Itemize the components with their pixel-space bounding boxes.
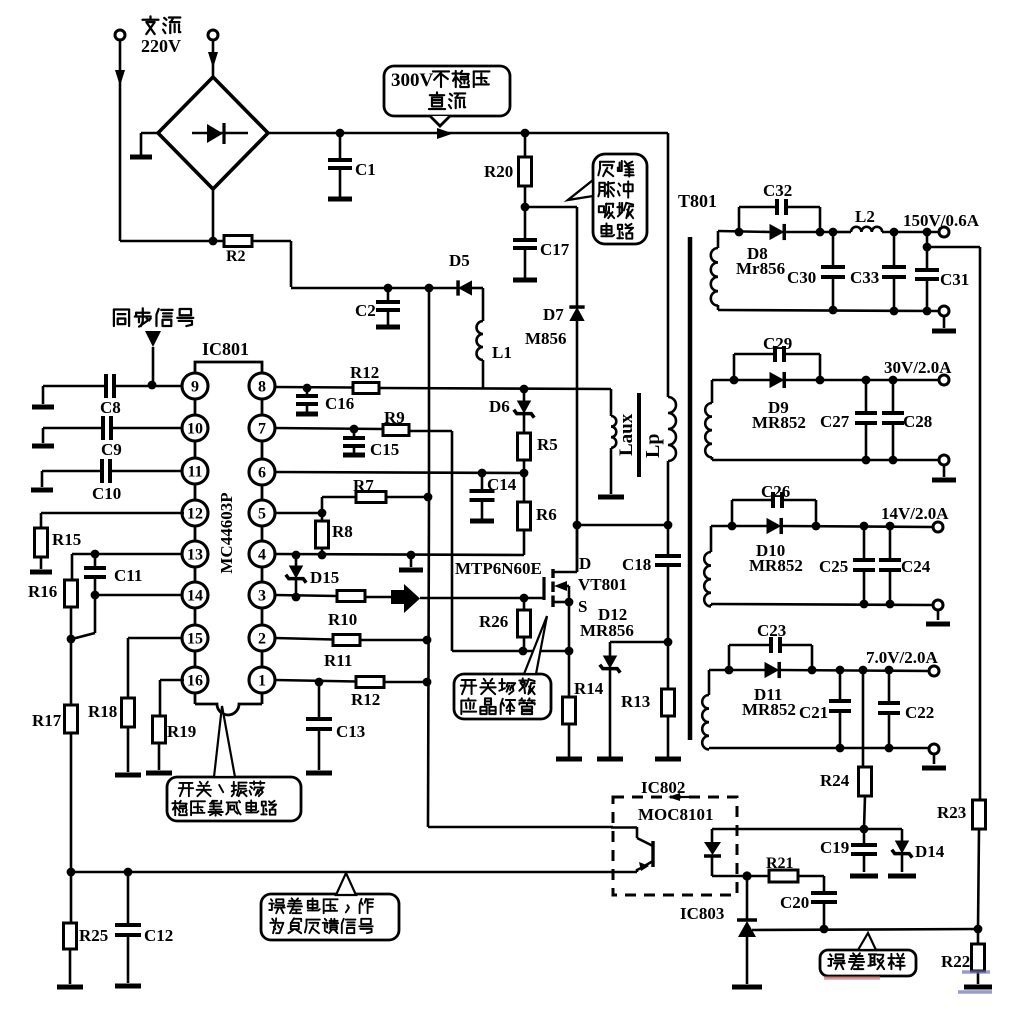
drive arrow symbol xyxy=(391,584,420,613)
wire R16 top xyxy=(71,554,74,580)
wire D12 row xyxy=(610,641,668,644)
svg-text:R18: R18 xyxy=(88,702,117,721)
winding Laux xyxy=(598,416,624,497)
wire D9 out xyxy=(785,379,939,382)
svg-text:7: 7 xyxy=(258,421,266,438)
wire ref row xyxy=(752,929,978,930)
svg-text:C1: C1 xyxy=(355,160,376,179)
node D11 cathode xyxy=(808,666,817,675)
svg-text:C31: C31 xyxy=(940,270,969,289)
svg-text:R5: R5 xyxy=(537,435,558,454)
capacitor C21 xyxy=(799,670,851,748)
resistor R12a xyxy=(350,363,379,394)
capacitor C16 xyxy=(296,388,354,414)
wire pin4 row xyxy=(275,554,524,555)
svg-text:C11: C11 xyxy=(114,566,142,585)
svg-text:14: 14 xyxy=(187,588,203,605)
resistor R12b xyxy=(351,677,384,710)
wire feedback long xyxy=(71,871,637,874)
svg-text:D5: D5 xyxy=(449,251,470,270)
svg-text:R21: R21 xyxy=(766,855,794,872)
callout error sampling xyxy=(820,933,916,976)
svg-text:C30: C30 xyxy=(787,268,816,287)
node R7-x427 xyxy=(424,493,433,502)
wire R24 line xyxy=(862,670,865,767)
capacitor C19 xyxy=(820,829,878,876)
svg-text:IC801: IC801 xyxy=(202,339,249,359)
svg-text:Lp: Lp xyxy=(642,434,664,458)
node D6 top xyxy=(520,385,529,394)
wire D5 to L1 xyxy=(472,288,483,321)
node D9 anode xyxy=(730,376,739,385)
svg-text:R7: R7 xyxy=(353,476,374,495)
scan artifact red xyxy=(824,976,880,980)
node C16 top xyxy=(303,384,312,393)
capacitor C31 xyxy=(915,270,969,311)
ground stub on pin4 row xyxy=(399,555,423,570)
AC input terminal 1 xyxy=(115,30,125,241)
svg-text:30V/2.0A: 30V/2.0A xyxy=(884,358,952,377)
capacitor C8 xyxy=(43,374,121,417)
node R24-C19-D14 xyxy=(860,825,869,834)
svg-text:4: 4 xyxy=(258,547,266,564)
resistor R8 xyxy=(316,513,353,548)
svg-text:C19: C19 xyxy=(820,838,849,857)
svg-text:C2: C2 xyxy=(355,301,376,320)
svg-text:MR852: MR852 xyxy=(742,700,796,719)
terminal sec2 gnd xyxy=(932,455,956,480)
op-amp IC801 MC44603P body xyxy=(195,339,262,715)
capacitor C12 xyxy=(115,872,173,986)
wire pin7 row xyxy=(275,428,383,429)
svg-text:S: S xyxy=(578,597,587,616)
svg-text:L2: L2 xyxy=(855,207,875,226)
resistor R9 xyxy=(383,408,409,436)
wire R18 top xyxy=(127,638,130,698)
node D10 anode xyxy=(728,522,737,531)
wire snubber top xyxy=(525,207,577,308)
node C30 bottom xyxy=(829,306,838,315)
svg-text:C24: C24 xyxy=(901,557,931,576)
svg-text:R9: R9 xyxy=(384,408,405,427)
diode D14 zener xyxy=(888,829,945,876)
sync arrow xyxy=(145,331,161,385)
wire C8 gnd xyxy=(32,386,54,407)
wire 300V rail xyxy=(268,132,668,135)
resistor R18 xyxy=(88,698,135,727)
svg-text:16: 16 xyxy=(187,673,203,690)
capacitor C29 xyxy=(734,334,820,380)
svg-text:300V: 300V xyxy=(391,70,434,91)
wire x427 vertical xyxy=(428,288,613,827)
svg-text:C20: C20 xyxy=(780,893,809,912)
wire D10 out xyxy=(782,526,932,527)
resistor R19 xyxy=(153,716,197,743)
svg-text:R26: R26 xyxy=(479,612,508,631)
AC input terminal 2 xyxy=(208,30,218,77)
node C31 branch xyxy=(923,228,932,252)
svg-text:D6: D6 xyxy=(489,397,510,416)
capacitor C9 xyxy=(43,416,122,459)
svg-text:MR852: MR852 xyxy=(752,413,806,432)
label sync signal xyxy=(114,308,193,326)
node R20 top xyxy=(521,129,530,138)
svg-text:C15: C15 xyxy=(370,440,399,459)
resistor R5 xyxy=(518,433,558,460)
resistor R16 xyxy=(28,580,78,607)
node Lp bottom xyxy=(664,521,673,530)
svg-text:C25: C25 xyxy=(819,557,848,576)
node C12 top xyxy=(124,868,133,877)
svg-text:R16: R16 xyxy=(28,582,57,601)
wire R14 gnd xyxy=(556,724,582,759)
svg-text:R15: R15 xyxy=(52,530,81,549)
capacitor C33 xyxy=(850,232,906,311)
wire pin5 row xyxy=(275,512,322,515)
node TL431 cathode xyxy=(742,871,751,880)
node D11 anode xyxy=(725,666,734,675)
capacitor C17 xyxy=(513,240,570,280)
wire R11 right xyxy=(360,639,427,642)
resistor R10 xyxy=(328,591,365,630)
resistor R13 xyxy=(621,642,681,759)
callout 300V unregulated DC xyxy=(384,66,510,126)
svg-text:MTP6N60E: MTP6N60E xyxy=(455,559,542,578)
node C17 top xyxy=(521,203,530,212)
wire primary bottom xyxy=(667,461,670,525)
svg-text:T801: T801 xyxy=(678,191,717,211)
svg-text:IC803: IC803 xyxy=(680,904,724,923)
svg-text:9: 9 xyxy=(191,379,199,396)
node D8 cathode xyxy=(816,228,825,237)
capacitor C23 xyxy=(729,621,812,670)
wire source down xyxy=(568,602,571,697)
wire AC bottom xyxy=(120,240,224,243)
wire pin9 xyxy=(114,385,183,388)
node R5 bottom xyxy=(520,469,529,478)
wire drain row xyxy=(577,524,668,527)
svg-text:Laux: Laux xyxy=(616,413,637,456)
diode D11 xyxy=(742,662,796,719)
wire sec1 top xyxy=(718,231,770,232)
svg-text:15: 15 xyxy=(187,631,203,648)
node bridge bottom xyxy=(209,237,218,246)
svg-text:7.0V/2.0A: 7.0V/2.0A xyxy=(866,648,939,667)
svg-text:D7: D7 xyxy=(543,305,564,324)
wire aux top xyxy=(610,389,613,416)
node R8 top xyxy=(318,509,327,518)
svg-text:R17: R17 xyxy=(32,711,62,730)
svg-text:R6: R6 xyxy=(536,505,557,524)
resistor R21 xyxy=(747,855,798,882)
ground at bridge left xyxy=(130,133,158,157)
wire pin6 row xyxy=(275,472,524,473)
svg-text:C14: C14 xyxy=(487,475,517,494)
resistor R25 xyxy=(64,923,109,949)
terminal 7V xyxy=(866,648,939,676)
diode D7 xyxy=(525,305,585,525)
node x427 top xyxy=(425,284,434,293)
wire sec4 bottom xyxy=(709,747,929,750)
node R26 bottom xyxy=(519,647,528,656)
node R8-pin4 xyxy=(318,551,327,560)
diode D5 xyxy=(449,251,472,296)
terminal sec3 gnd xyxy=(926,600,950,624)
node D9 cathode xyxy=(816,376,825,385)
node C13 top xyxy=(315,678,324,687)
capacitor C32 xyxy=(739,181,820,232)
node C1 top xyxy=(336,129,345,138)
node drain-Lp row left xyxy=(573,521,582,530)
wire R19 gnd xyxy=(146,743,172,773)
wire R7 right xyxy=(386,496,428,499)
svg-text:C29: C29 xyxy=(763,334,792,353)
callout spike absorb circuit xyxy=(568,154,647,244)
svg-text:M856: M856 xyxy=(525,329,567,348)
wire R16 bottom xyxy=(70,607,73,640)
svg-text:L1: L1 xyxy=(492,343,512,362)
wire R6 bottom xyxy=(523,530,526,555)
callout switching FET xyxy=(454,616,551,719)
node gnd stub pin4 xyxy=(407,551,416,560)
wire LED anode xyxy=(712,828,902,831)
svg-text:R24: R24 xyxy=(820,771,850,790)
diode D15 zener xyxy=(286,555,340,597)
node C28 bottom xyxy=(889,456,898,465)
diode D12 zener xyxy=(580,605,634,759)
svg-text:D: D xyxy=(579,554,591,573)
svg-text:13: 13 xyxy=(187,547,203,564)
node source xyxy=(565,598,574,607)
svg-text:C18: C18 xyxy=(622,555,651,574)
node sample junction xyxy=(974,925,983,934)
svg-text:D15: D15 xyxy=(310,568,339,587)
wire primary top xyxy=(667,133,670,397)
arrow on 300V rail xyxy=(437,128,453,139)
resistor R24 xyxy=(820,767,872,796)
svg-text:R20: R20 xyxy=(484,162,513,181)
wire drain down xyxy=(576,525,579,572)
wire source row xyxy=(452,650,569,653)
node C18 bottom xyxy=(664,638,673,647)
capacitor C11 xyxy=(84,554,142,595)
capacitor C26 xyxy=(732,482,816,526)
svg-text:2: 2 xyxy=(258,631,266,648)
wire pin1 row xyxy=(275,680,356,682)
svg-text:C16: C16 xyxy=(325,394,354,413)
svg-text:C21: C21 xyxy=(799,703,828,722)
wire sec3 top xyxy=(711,525,767,528)
LED of IC802 xyxy=(704,829,721,876)
svg-text:C13: C13 xyxy=(336,722,365,741)
resistor R14 xyxy=(563,679,604,724)
wire pin11 xyxy=(110,470,183,473)
svg-text:11: 11 xyxy=(187,464,202,481)
shunt regulator IC803 xyxy=(680,876,762,987)
wire sec1 bottom xyxy=(718,310,939,311)
node C25 top xyxy=(860,522,869,531)
wire pin16 xyxy=(160,680,184,716)
wire R2 to C2 row xyxy=(252,241,388,288)
wire C2/D5 row xyxy=(388,287,458,290)
node C25 bottom xyxy=(860,600,869,609)
node C24 bottom xyxy=(886,600,895,609)
resistor R11 xyxy=(324,635,360,671)
node C15 top xyxy=(350,425,359,434)
wire bridge bottom xyxy=(212,189,215,241)
resistor R7 xyxy=(353,476,386,503)
diode D10 xyxy=(749,518,803,575)
node D8 anode xyxy=(735,228,744,237)
svg-text:C32: C32 xyxy=(763,181,792,200)
wire R5-R6 xyxy=(523,460,526,502)
wire sec3 bottom xyxy=(711,604,932,605)
node D10 cathode xyxy=(812,522,821,531)
svg-text:1: 1 xyxy=(258,673,266,690)
terminal 14V xyxy=(881,504,949,532)
wire pin12 xyxy=(41,513,184,528)
svg-text:C33: C33 xyxy=(850,268,879,287)
wire R8 bottom xyxy=(321,548,324,555)
resistor R6 xyxy=(518,502,557,530)
node R12b-x427 xyxy=(423,678,432,687)
resistor R20 xyxy=(484,133,532,186)
wire R25 gnd xyxy=(57,949,83,987)
svg-text:MR852: MR852 xyxy=(749,556,803,575)
wire sec2 top xyxy=(712,379,770,382)
wire C11 to R17 node xyxy=(72,595,95,639)
capacitor C24 xyxy=(879,526,931,604)
resistor R23 xyxy=(937,800,986,829)
scan artifact blue xyxy=(958,972,992,992)
transformer T801 core xyxy=(678,191,717,740)
label AC 220V xyxy=(141,16,181,56)
svg-text:C10: C10 xyxy=(92,484,121,503)
node C2 top xyxy=(384,284,393,293)
svg-text:MOC8101: MOC8101 xyxy=(638,805,714,824)
node C28 top xyxy=(889,376,898,385)
wire pin10 xyxy=(111,427,183,430)
node source junction xyxy=(565,647,574,656)
node D15 top xyxy=(292,551,301,560)
terminal 30V xyxy=(884,358,952,385)
IC801 pins xyxy=(182,373,275,693)
winding Lp primary xyxy=(668,397,676,461)
node C33 top xyxy=(890,228,899,237)
winding secondary 4 xyxy=(702,670,709,749)
wire to R17 xyxy=(70,639,73,705)
node R17 top xyxy=(67,635,76,644)
capacitor C13 xyxy=(306,682,365,773)
node C22 bottom xyxy=(885,744,894,753)
wire sec1 to term xyxy=(882,231,939,234)
capacitor C30 xyxy=(787,232,845,310)
wire pin8 row xyxy=(275,387,611,389)
node C11 bottom xyxy=(91,591,100,600)
node R26 top xyxy=(520,594,529,603)
svg-text:10: 10 xyxy=(187,421,203,438)
svg-text:R12: R12 xyxy=(351,690,380,709)
resistor R22 xyxy=(941,929,992,987)
svg-text:R22: R22 xyxy=(941,952,970,971)
svg-text:8: 8 xyxy=(258,379,266,396)
svg-text:C12: C12 xyxy=(144,926,173,945)
node C27 top xyxy=(862,376,871,385)
wire R20 to C17 xyxy=(524,186,527,240)
capacitor C15 xyxy=(343,429,399,459)
svg-text:14V/2.0A: 14V/2.0A xyxy=(881,504,949,523)
resistor R26 xyxy=(479,598,531,651)
wire R7 left xyxy=(322,497,356,513)
terminal sec4 gnd xyxy=(922,744,946,768)
winding secondary 1 xyxy=(711,231,718,310)
resistor R15 xyxy=(35,528,82,557)
svg-text:12: 12 xyxy=(187,506,203,523)
svg-text:R12: R12 xyxy=(350,363,379,382)
svg-text:C26: C26 xyxy=(761,482,790,501)
wire R21 to C20 xyxy=(798,876,824,893)
capacitor C20 xyxy=(780,893,837,929)
node C24 top xyxy=(886,522,895,531)
node C14 top xyxy=(478,469,487,478)
capacitor C10 xyxy=(42,459,121,503)
wire sec4 top xyxy=(709,669,765,672)
svg-text:220V: 220V xyxy=(141,36,181,56)
diode D9 xyxy=(752,372,806,432)
svg-text:Mr856: Mr856 xyxy=(736,259,785,278)
node sync junction xyxy=(148,381,157,390)
wire L1 down xyxy=(482,360,485,388)
svg-text:R2: R2 xyxy=(226,248,246,265)
bridge rectifier xyxy=(158,77,268,189)
terminal 150V xyxy=(903,211,980,237)
capacitor C27 xyxy=(820,380,877,460)
diode D6 zener xyxy=(489,389,534,433)
wire R25 down xyxy=(70,872,73,923)
node C22 top xyxy=(885,666,894,675)
wire R10 to arrow xyxy=(365,596,391,599)
capacitor C25 xyxy=(819,526,875,604)
wire LED cathode xyxy=(712,875,747,878)
winding secondary 2 xyxy=(705,380,712,460)
svg-text:R13: R13 xyxy=(621,692,650,711)
svg-text:C23: C23 xyxy=(757,621,786,640)
wire C18 line xyxy=(667,525,670,556)
svg-text:MC44603P: MC44603P xyxy=(217,492,236,573)
wire R15 gnd xyxy=(30,557,52,572)
wire sec2 bottom xyxy=(712,459,939,462)
wire R17 to feedback xyxy=(70,733,73,872)
svg-text:5: 5 xyxy=(258,506,266,523)
node C20 bottom xyxy=(820,925,829,934)
svg-text:R14: R14 xyxy=(574,679,604,698)
svg-text:R23: R23 xyxy=(937,803,966,822)
node C21 top xyxy=(836,666,845,675)
svg-text:C9: C9 xyxy=(101,440,122,459)
resistor R2 xyxy=(224,236,252,266)
AC input arrow 2 xyxy=(208,52,218,68)
wire pin2 row xyxy=(275,638,333,640)
inductor L2 xyxy=(836,207,882,232)
capacitor C14 xyxy=(470,473,517,521)
AC input arrow 1 xyxy=(115,70,125,86)
svg-text:VT801: VT801 xyxy=(578,575,627,594)
wire R12b right xyxy=(384,681,427,684)
inductor L1 xyxy=(477,321,512,362)
capacitor C28 xyxy=(882,380,932,460)
node C21 bottom xyxy=(836,744,845,753)
optocoupler IC802 box xyxy=(613,778,737,895)
